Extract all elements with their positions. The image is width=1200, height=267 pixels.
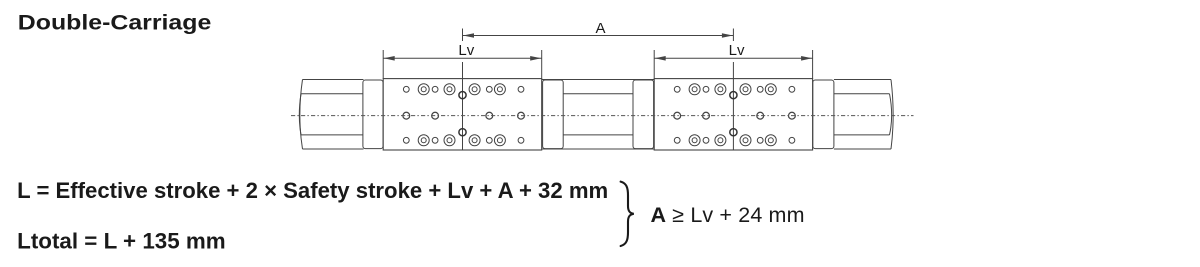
dimension A: line and arrows <box>463 35 734 37</box>
end block 2 <box>543 80 564 149</box>
left tube broken-end arcs <box>299 80 302 150</box>
carriage 1 (left) middle-row bolt holes <box>403 112 524 119</box>
svg-text:A: A <box>595 20 605 37</box>
dimension A: extension ticks <box>463 29 734 42</box>
end block 1 <box>363 80 383 149</box>
right tube rounded-end arcs <box>890 80 894 150</box>
carriage 2 (right) body <box>654 79 812 150</box>
svg-text:L = Effective stroke + 2 × Saf: L = Effective stroke + 2 × Safety stroke… <box>17 178 608 203</box>
middle tube body <box>542 80 655 150</box>
carriage 1 (left) centre-line holes <box>459 92 466 136</box>
carriage 2 (right) centre-line holes <box>730 92 737 136</box>
dimension Lv right: extension lines <box>654 50 812 79</box>
svg-text:A ≥ Lv + 24 mm: A ≥ Lv + 24 mm <box>651 203 805 227</box>
carriage 2 (right) centre line <box>732 79 734 150</box>
svg-text:Lv: Lv <box>458 42 474 59</box>
svg-text:Lv: Lv <box>729 42 745 59</box>
end block 4 <box>813 80 834 149</box>
end block 3 <box>633 80 654 149</box>
curly brace <box>621 182 634 246</box>
carriage 1 (left) centre line <box>462 79 464 150</box>
carriage 2 (right) hole pattern <box>674 84 795 146</box>
carriage 1 (left) hole pattern <box>403 84 523 146</box>
horizontal dash-dot centreline <box>291 115 914 117</box>
dimension Lv right: line and arrows <box>654 57 812 59</box>
svg-text:Ltotal = L + 135 mm: Ltotal = L + 135 mm <box>17 228 226 253</box>
carriage 1 (left) body <box>383 79 542 150</box>
dimension Lv left: line and arrows <box>383 57 542 59</box>
dimension Lv left: extension lines <box>383 50 542 79</box>
left tube body <box>301 80 364 150</box>
carriage 2 (right) middle-row bolt holes <box>674 112 796 119</box>
svg-text:Double-Carriage: Double-Carriage <box>18 12 212 35</box>
right tube body <box>834 80 891 150</box>
